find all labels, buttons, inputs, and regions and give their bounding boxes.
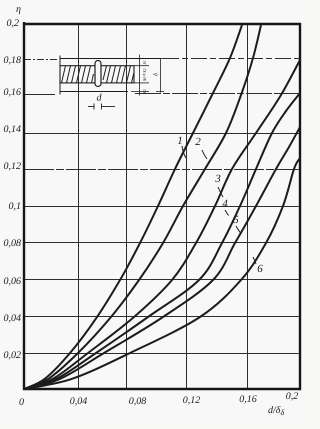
leader 2	[202, 150, 207, 159]
grid horizontal 0.10	[24, 206, 300, 208]
grid vertical 0.12	[186, 24, 188, 389]
y axis	[23, 22, 25, 390]
svg-text:5: 5	[233, 214, 239, 226]
svg-text:0,16: 0,16	[239, 394, 257, 405]
svg-text:η: η	[16, 4, 21, 15]
svg-text:0,08: 0,08	[4, 238, 22, 249]
svg-text:0,06: 0,06	[4, 276, 22, 287]
x axis	[23, 388, 301, 390]
grid horizontal 0.14	[24, 133, 300, 135]
svg-text:3: 3	[214, 173, 221, 185]
grid horizontal 0.16 right	[135, 93, 300, 95]
svg-text:0,12: 0,12	[183, 395, 201, 406]
svg-text:s2: s2	[142, 89, 148, 93]
grid horizontal 0.18 right	[163, 58, 300, 60]
svg-text:1: 1	[177, 135, 183, 147]
grid horizontal 0.16 left	[24, 94, 55, 96]
svg-text:6: 6	[257, 263, 263, 275]
curve 2	[24, 25, 261, 389]
svg-text:s0+s2: s0+s2	[142, 68, 148, 81]
svg-text:0,04: 0,04	[70, 396, 88, 407]
grid horizontal 0.06	[24, 279, 300, 281]
svg-text:0,2: 0,2	[286, 391, 299, 402]
leader 3	[218, 187, 223, 197]
hatched band	[60, 66, 134, 83]
svg-text:0,14: 0,14	[4, 124, 22, 135]
svg-text:4: 4	[222, 198, 228, 210]
svg-text:0,08: 0,08	[129, 396, 147, 407]
svg-text:0: 0	[19, 397, 24, 408]
svg-text:0,2: 0,2	[7, 18, 20, 29]
svg-text:0,1: 0,1	[9, 201, 22, 212]
leader 4	[225, 210, 229, 216]
curve 3	[24, 60, 300, 389]
grid horizontal 0.08	[24, 242, 300, 244]
grid horizontal 0.12	[24, 169, 300, 171]
svg-text:d/δδ: d/δδ	[268, 405, 284, 417]
leader 6	[253, 257, 256, 264]
svg-text:0,16: 0,16	[4, 87, 22, 98]
svg-text:0,04: 0,04	[4, 313, 22, 324]
dimension ticks right side	[131, 55, 164, 96]
svg-text:0,18: 0,18	[4, 55, 22, 66]
curve 1	[24, 25, 242, 389]
inset top plate line	[60, 58, 161, 60]
leader 5	[236, 226, 241, 233]
d dimension line	[88, 104, 115, 110]
svg-text:2: 2	[195, 136, 201, 148]
svg-text:d: d	[97, 93, 103, 104]
grid horizontal 0.02	[24, 353, 300, 355]
inset left end cap	[59, 56, 61, 95]
svg-text:0,12: 0,12	[4, 161, 22, 172]
frame top	[23, 23, 301, 25]
grid horizontal 0.04	[24, 316, 300, 318]
grid vertical 0.08	[126, 24, 128, 389]
grid vertical 0.04	[78, 24, 80, 389]
leader 1	[182, 146, 186, 158]
svg-text:s1: s1	[142, 60, 148, 64]
grid vertical 0.16	[247, 24, 249, 389]
frame right	[299, 23, 301, 390]
inset diagram group	[60, 55, 164, 110]
curve 6	[24, 158, 300, 389]
inset bottom plate line	[60, 91, 128, 93]
slot hole	[95, 61, 101, 87]
svg-text:0,02: 0,02	[4, 350, 22, 361]
svg-text:δ: δ	[153, 73, 160, 76]
curve 4	[24, 93, 300, 389]
curve 5	[24, 127, 300, 389]
grid horizontal 0.18 left (dash-dot)	[24, 59, 58, 61]
